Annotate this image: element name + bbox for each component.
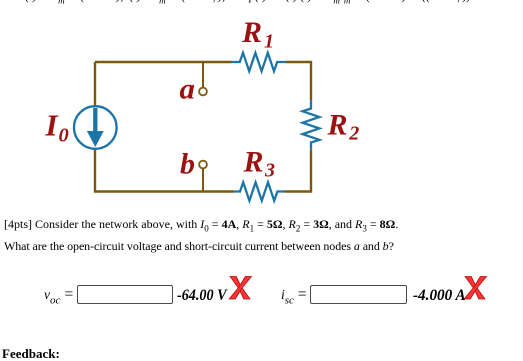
svg-text:a: a — [180, 73, 196, 106]
answer label v_oc — [44, 288, 60, 308]
input box isc — [310, 285, 407, 304]
input box voc — [77, 285, 173, 304]
node b terminal circle — [199, 161, 207, 169]
resistor R1 zigzag — [232, 53, 287, 71]
svg-text:I: I — [45, 108, 59, 143]
wire: R2 bottom to bottom-right corner and left to R3 right lead — [285, 149, 312, 191]
wire: node b stub — [202, 168, 204, 192]
wire: node a stub — [202, 62, 204, 88]
Feedback heading (cut off at bottom) — [2, 347, 60, 360]
red X mark for isc — [462, 275, 489, 301]
wire: R1 right lead to top-right corner and down to R2 top — [286, 62, 311, 101]
svg-text:3: 3 — [264, 160, 275, 182]
svg-text:R: R — [327, 109, 348, 142]
node a terminal circle — [199, 88, 207, 96]
svg-text:0: 0 — [59, 125, 69, 147]
current source arrowhead — [87, 131, 104, 147]
answer value -64.00 V — [177, 288, 227, 304]
answer value -4.000 A — [413, 288, 466, 304]
red X mark for voc — [227, 275, 254, 301]
clipped previous text line at very top — [0, 0, 523, 5]
question text line 1 — [4, 218, 398, 234]
equals sign voc — [65, 287, 74, 303]
svg-text:2: 2 — [348, 122, 359, 144]
wire: R3 left lead to bottom-left corner and up left side through source — [95, 62, 234, 192]
resistor R2 zigzag — [303, 101, 320, 150]
question text line 2 — [4, 240, 394, 252]
resistor R3 zigzag — [234, 182, 285, 200]
current source I0 circle — [74, 106, 117, 149]
svg-text:R: R — [243, 146, 264, 179]
svg-text:1: 1 — [264, 31, 274, 53]
current source arrow shaft — [93, 108, 97, 134]
svg-text:b: b — [180, 148, 195, 181]
answer label i_sc — [281, 288, 294, 308]
svg-text:R: R — [241, 16, 262, 49]
wire: top-left to R1 left lead — [95, 61, 232, 63]
equals sign isc — [298, 287, 307, 303]
